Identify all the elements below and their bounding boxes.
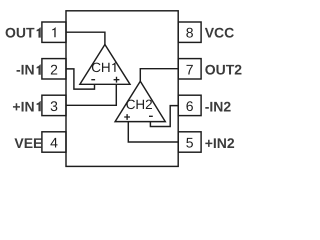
svg-text:7: 7 <box>186 61 194 77</box>
svg-text:6: 6 <box>186 98 194 114</box>
svg-text:VCC: VCC <box>205 25 235 41</box>
svg-text:3: 3 <box>50 98 58 114</box>
svg-text:OUT: OUT <box>5 25 35 41</box>
svg-text:CH: CH <box>91 60 111 75</box>
svg-text:OUT2: OUT2 <box>205 62 242 78</box>
svg-text:4: 4 <box>50 135 58 151</box>
svg-text:-IN: -IN <box>16 62 35 78</box>
svg-text:+IN: +IN <box>12 98 34 114</box>
svg-text:-IN2: -IN2 <box>205 98 232 114</box>
svg-text:2: 2 <box>50 61 58 77</box>
svg-text:8: 8 <box>186 24 194 40</box>
svg-text:CH2: CH2 <box>126 97 153 112</box>
svg-text:5: 5 <box>186 135 194 151</box>
svg-text:+IN2: +IN2 <box>205 135 235 151</box>
svg-text:VEE: VEE <box>14 135 42 151</box>
